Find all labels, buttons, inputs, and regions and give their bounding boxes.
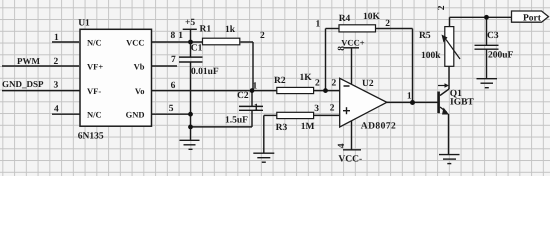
- svg-text:1M: 1M: [301, 122, 315, 132]
- svg-text:5: 5: [169, 104, 174, 114]
- svg-text:Port: Port: [523, 14, 542, 24]
- svg-text:2: 2: [260, 31, 265, 41]
- svg-text:3: 3: [54, 81, 59, 91]
- svg-text:GND: GND: [126, 110, 145, 120]
- svg-text:R2: R2: [274, 76, 286, 86]
- svg-text:U1: U1: [78, 18, 90, 28]
- svg-text:VCC-: VCC-: [338, 155, 362, 165]
- svg-text:R5: R5: [419, 31, 431, 41]
- svg-text:2: 2: [437, 5, 447, 10]
- svg-text:1.5uF: 1.5uF: [225, 116, 248, 126]
- svg-text:10K: 10K: [363, 12, 381, 22]
- svg-text:C3: C3: [487, 31, 499, 41]
- svg-text:C2: C2: [237, 91, 249, 101]
- svg-text:1: 1: [178, 31, 183, 41]
- svg-text:1: 1: [54, 33, 59, 43]
- svg-text:N/C: N/C: [87, 110, 102, 120]
- svg-text:R1: R1: [200, 25, 212, 35]
- svg-text:R3: R3: [276, 123, 288, 133]
- svg-text:1k: 1k: [225, 25, 236, 35]
- svg-text:R4: R4: [339, 14, 351, 24]
- svg-text:3: 3: [314, 104, 319, 114]
- svg-text:AD8072: AD8072: [361, 122, 396, 132]
- svg-text:PWM: PWM: [17, 56, 40, 66]
- svg-text:+5: +5: [185, 18, 195, 28]
- svg-text:2: 2: [330, 104, 335, 114]
- svg-text:0.01uF: 0.01uF: [191, 67, 219, 77]
- svg-text:4: 4: [337, 143, 347, 148]
- svg-text:2: 2: [332, 79, 337, 89]
- svg-text:VF-: VF-: [87, 86, 101, 96]
- svg-text:VF+: VF+: [87, 62, 103, 72]
- svg-text:6N135: 6N135: [78, 132, 104, 142]
- svg-text:C1: C1: [191, 44, 203, 54]
- svg-text:8: 8: [337, 46, 347, 51]
- svg-text:Vb: Vb: [134, 62, 145, 72]
- svg-text:1: 1: [254, 103, 259, 113]
- svg-text:1: 1: [316, 20, 321, 30]
- svg-text:VCC: VCC: [126, 38, 144, 48]
- svg-text:7: 7: [171, 55, 176, 65]
- svg-text:1K: 1K: [300, 73, 313, 83]
- svg-text:Vo: Vo: [135, 86, 145, 96]
- svg-text:U2: U2: [362, 79, 374, 89]
- svg-text:1: 1: [253, 82, 258, 92]
- svg-text:IGBT: IGBT: [450, 98, 474, 108]
- svg-text:VCC+: VCC+: [341, 38, 364, 48]
- svg-text:N/C: N/C: [87, 38, 102, 48]
- svg-text:8: 8: [171, 31, 176, 41]
- svg-text:2: 2: [315, 79, 320, 89]
- svg-text:GND_DSP: GND_DSP: [2, 79, 44, 89]
- svg-text:2: 2: [54, 57, 59, 67]
- svg-text:200uF: 200uF: [488, 51, 514, 61]
- svg-text:4: 4: [54, 105, 59, 115]
- svg-text:1: 1: [407, 91, 412, 101]
- svg-text:2: 2: [385, 19, 390, 29]
- svg-text:6: 6: [171, 81, 176, 91]
- svg-text:100k: 100k: [421, 51, 441, 61]
